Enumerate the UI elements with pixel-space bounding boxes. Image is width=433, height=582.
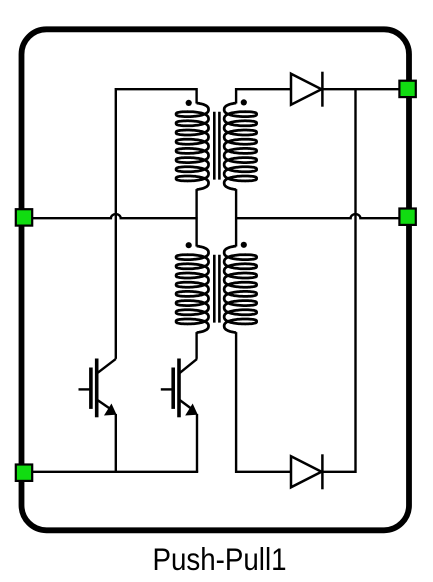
transistor Q2 gate bar	[171, 368, 175, 409]
label Push-Pull1	[29, 544, 410, 576]
terminal left-middle (primary center tap) (green square port)	[16, 209, 32, 225]
wire: primary lead bottom (TR2 left winding down to Q2 collector)	[195, 332, 197, 359]
subsystem border (rounded rectangle)	[22, 29, 410, 530]
wire: Q1 emitter vertical down to bottom rail	[115, 414, 117, 472]
wire: center rail left piece (left terminal to primary center tap, hop over x=115.8)	[33, 214, 198, 218]
transistor Q1 emitter lead	[97, 400, 113, 411]
transformer TR1 right winding (secondary top)	[224, 103, 256, 190]
wire: D1 cathode to top-right terminal	[322, 88, 399, 90]
transformer TR1 core lines	[214, 112, 219, 180]
diode D2 cathode bar	[321, 454, 324, 489]
transformer TR2 left polarity dot	[186, 242, 192, 248]
wire: secondary bottom lead down and across to D2 anode	[236, 332, 291, 472]
transistor Q1 body bar	[95, 359, 99, 418]
diode D1 triangle (anode left, cathode right)	[291, 74, 322, 105]
wire: D2 cathode across and right vertical up to top wire	[322, 89, 355, 472]
diode D1 cathode bar	[321, 72, 324, 107]
transformer TR2 right winding (secondary bottom)	[224, 246, 256, 333]
transformer TR2 core lines	[214, 255, 219, 323]
transformer TR2 left winding (primary bottom)	[176, 246, 208, 333]
transistor Q1 collector lead	[97, 359, 116, 374]
transistor Q1 gate bar	[89, 368, 93, 409]
transistor Q2 body bar	[177, 359, 181, 418]
diode D2 triangle (anode left, cathode right)	[291, 456, 322, 487]
terminal right-middle (secondary center tap) (green square port)	[399, 209, 415, 225]
wire: Q2 emitter vertical down to bottom rail end	[196, 414, 198, 472]
transistor Q2 emitter arrowhead	[186, 405, 197, 415]
transformer TR1 right polarity dot	[241, 99, 247, 105]
transformer TR1 left winding (primary top)	[176, 103, 208, 190]
terminal top-right (rectified output) (green square port)	[399, 81, 415, 97]
wire: center rail right piece (secondary center tap to right terminal, hop over x=355.5)	[236, 214, 400, 218]
transformer TR1 left polarity dot	[186, 100, 192, 106]
wire: secondary center tap vertical (TR1 right winding to TR2 right winding)	[235, 189, 237, 246]
wire: bottom rail left piece (bottom-left terminal to Q2 emitter)	[33, 471, 199, 473]
wire: Q1 collector up, across, down to TR1 primary dot end	[116, 89, 197, 359]
transistor Q2 emitter lead	[179, 400, 194, 411]
wire: secondary top lead up and across to D1 anode	[236, 89, 291, 103]
transistor Q1 emitter arrowhead	[105, 405, 116, 415]
transformer TR2 right polarity dot	[241, 242, 247, 248]
transistor Q1 gate lead	[79, 388, 90, 390]
terminal bottom-left (emitter return) (green square port)	[16, 465, 32, 481]
transistor Q2 gate lead	[161, 388, 172, 390]
wire: primary center tap vertical (TR1 left winding to TR2 left winding)	[195, 189, 197, 246]
transistor Q2 collector lead	[179, 359, 197, 374]
